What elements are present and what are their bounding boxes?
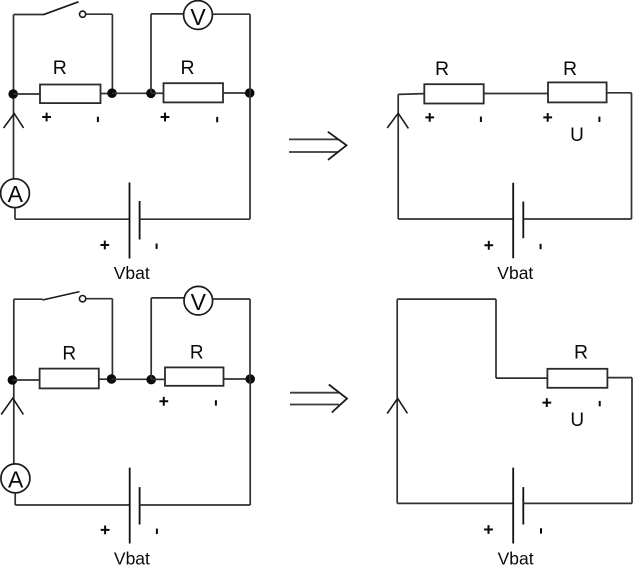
svg-text:R: R [62,343,76,364]
wire bottom left to battery [398,218,513,220]
label R of resistor R7 [574,341,588,363]
wire right vertical node H down to bottom [249,379,251,505]
voltmeter V1 (circle) [184,1,213,31]
label R of resistor R3 [435,58,449,80]
polarity - tick of R4 [598,117,600,122]
battery V3 negative plate (short line) [139,487,141,524]
wire resistor R1 to node B [101,93,113,95]
node B (junction dot) [107,88,117,98]
svg-text:Vbat: Vbat [114,549,150,565]
label R of resistor R5 [62,343,76,364]
svg-text:R: R [574,341,588,363]
ammeter A2 (circle) [1,464,30,493]
battery V1 negative plate (short line) [139,201,141,240]
battery - tick label [156,529,158,534]
label U (voltage across R4) [570,125,584,146]
wire voltmeter loop right vertical down to node H [249,299,251,379]
wire left vertical from top corner down to ammeter [13,299,15,464]
node G (junction dot) [146,375,156,385]
switch S1 (blade) [43,2,79,15]
switch S2 (blade, nearly horizontal) [43,292,80,300]
wire voltmeter loop right vertical down to node D [249,14,251,93]
node E (junction dot) [8,375,18,385]
battery + label [100,241,109,250]
voltmeter V2 (circle) [184,286,213,315]
polarity + of R3 [425,113,434,122]
polarity - tick of R1 [97,117,99,122]
wire top horizontal [397,298,496,300]
wire voltmeter to loop top-right [213,298,250,300]
wire ammeter to bottom-left corner [14,493,16,505]
battery + label [484,525,493,534]
wire right vertical node D down to bottom [249,93,251,219]
current direction arrow (chevron) [387,113,408,128]
svg-text:U: U [570,125,584,146]
svg-text:V: V [190,4,206,30]
wire battery to bottom-right corner [523,218,631,220]
battery V4 positive plate (long line) [512,468,514,544]
label R of resistor R6 [190,343,204,364]
resistor R2 (box) [164,83,224,102]
wire left vertical [396,299,398,503]
wire resistor R3 to resistor R4 [484,93,548,95]
wire battery to bottom-right corner [523,502,632,504]
wire resistor R4 to top-right corner [607,92,632,94]
svg-text:R: R [563,58,577,80]
wire bottom left to battery [15,504,130,506]
wire resistor R7 to top-right corner [607,377,632,379]
wire voltmeter loop left vertical [150,298,152,380]
double arrow shaft bottom line [290,404,339,406]
polarity + of R6 [159,397,168,406]
label R of resistor R1 [53,57,67,79]
double arrow shaft top line [290,392,339,394]
wire top-left horizontal from left branch to switch [14,14,44,16]
resistor R5 (box) [40,369,99,389]
resistor R3 (box) [424,84,483,103]
label U (voltage across R7) [570,410,584,431]
wire voltmeter loop top-left to voltmeter [151,297,184,299]
resistor R6 (box) [165,367,224,385]
polarity + of R1 [42,113,51,122]
battery V3 positive plate (long line) [129,468,131,544]
ammeter A1 (circle) [1,179,30,208]
wire bottom left to battery [15,218,130,220]
svg-text:R: R [435,58,449,80]
wire node E to resistor R5 [12,379,39,381]
svg-text:A: A [8,466,24,492]
svg-text:Vbat: Vbat [498,549,534,565]
battery + label [484,241,493,250]
battery - tick label [540,528,542,533]
battery + label [101,526,110,535]
node D (junction dot) [245,88,255,98]
wire right vertical [631,378,633,504]
polarity - tick of R6 [215,400,217,405]
resistor R7 (box) [547,369,607,388]
polarity - tick of R7 [599,401,601,406]
wire bottom left to battery [397,502,513,504]
svg-text:R: R [180,57,194,79]
wire top-left corner to resistor R3 [398,93,424,96]
wire vertical from switch branch down to node F [111,299,113,375]
wire node B to node C [112,92,151,94]
svg-text:V: V [191,289,207,315]
label Vbat [498,549,534,565]
wire battery to bottom-right corner [140,504,251,506]
polarity + of R2 [161,113,170,122]
resistor R4 (box) [548,82,607,102]
current direction arrow (chevron) [1,398,23,414]
wire node A to resistor R1 [13,93,40,95]
node C (junction dot) [146,89,156,99]
wire voltmeter to loop top-right [212,13,250,15]
wire left vertical from top corner down to ammeter [13,15,15,179]
battery - tick label [540,244,542,249]
wire resistor R5 to node F [99,378,112,380]
wire step to resistor R7 [496,377,547,379]
double arrow head [328,132,347,160]
wire from switch terminal to corner [86,298,113,300]
node A (junction dot) [8,89,18,99]
battery - tick label [156,244,158,249]
svg-text:R: R [190,343,204,364]
wire step-down vertical [495,299,497,378]
wire left vertical [397,94,399,219]
label R of resistor R4 [563,58,577,80]
battery V1 positive plate (long line) [129,183,131,259]
resistor R1 (box) [40,85,101,104]
wire battery to bottom-right corner [140,218,250,220]
switch S2 terminal circle [79,296,85,302]
label Vbat [114,549,150,565]
battery V4 negative plate (short line) [522,487,524,524]
wire node G to resistor R6 [151,378,165,380]
node H (junction dot) [245,374,255,384]
node F (junction dot) [107,374,117,384]
current direction arrow (chevron) [387,398,407,413]
double arrow head [329,385,347,413]
wire ammeter to bottom-left corner [14,208,16,220]
wire top-left horizontal from left branch to switch [14,298,43,300]
wire resistor R6 to node H [224,378,251,380]
label Vbat [114,263,150,283]
svg-text:Vbat: Vbat [497,263,533,283]
double arrow shaft bottom line [289,151,339,153]
wire node C to resistor R2 [151,92,164,94]
wire from switch terminal to top-right corner [86,13,113,15]
double arrow shaft top line [289,138,339,140]
label R of resistor R2 [180,57,194,79]
switch S1 terminal circle [80,11,86,17]
svg-text:Vbat: Vbat [114,263,150,283]
wire voltmeter loop top-left to voltmeter [151,13,184,15]
svg-text:R: R [53,57,67,79]
polarity - tick of R2 [216,117,218,122]
polarity + of R4 [543,113,552,122]
wire node F to node G [112,378,152,380]
battery V2 positive plate (long line) [512,183,514,259]
svg-text:A: A [8,181,24,207]
current direction arrow (chevron) [4,114,24,129]
label Vbat [497,263,533,283]
wire resistor R2 to node D [223,92,250,94]
wire voltmeter loop left vertical [150,14,152,93]
polarity + of R7 [542,398,551,407]
polarity - tick of R3 [480,117,482,122]
svg-text:U: U [570,410,584,431]
wire right vertical [631,93,633,219]
wire vertical from switch branch down to node B [111,14,113,89]
battery V2 negative plate (short line) [522,202,524,239]
